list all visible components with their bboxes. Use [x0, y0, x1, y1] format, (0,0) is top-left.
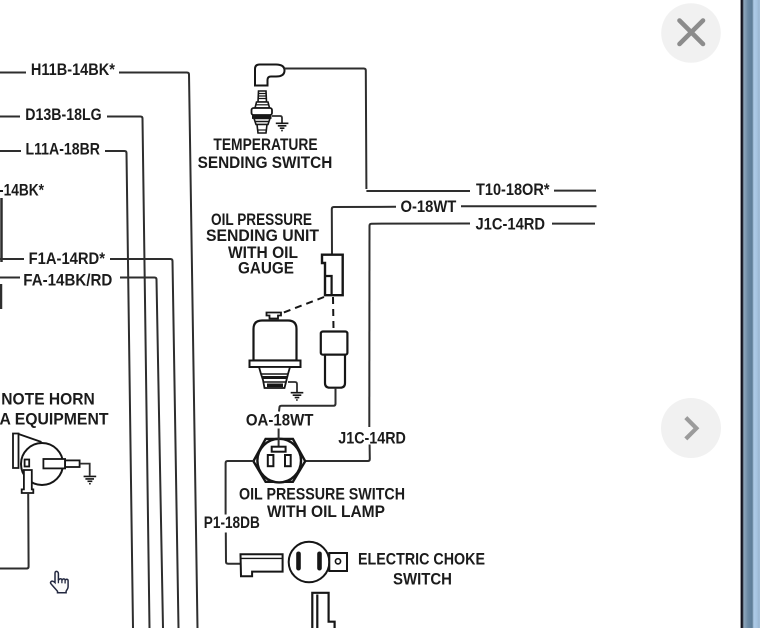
inline connector bottom block: [325, 355, 345, 388]
wire stub at left edge lower: [0, 284, 2, 309]
svg-text:FA-14BK/RD: FA-14BK/RD: [23, 272, 112, 290]
wire stub at left edge upper: [0, 198, 3, 262]
svg-text:GAUGE: GAUGE: [238, 259, 294, 278]
wire O-18WT left corner down to connector: [332, 207, 396, 255]
horn inner terminal square: [25, 460, 30, 467]
choke right slot: [317, 552, 322, 571]
wire temp sensor to ground: [272, 116, 282, 123]
wire J1C lower vertical to hexagon right: [305, 445, 370, 462]
ground canister: [291, 393, 304, 401]
close button: [661, 3, 721, 63]
oil pressure switch hexagon: [253, 439, 305, 482]
oil pressure switch circle: [257, 439, 301, 483]
wire L11A left stub: [0, 150, 21, 152]
electric choke switch body: [289, 542, 330, 583]
wire horn to ground: [80, 464, 90, 476]
wire J1C right stub: [552, 223, 595, 225]
wire F1A left stub: [0, 258, 24, 260]
switch top terminal: [272, 447, 286, 452]
svg-text:SWITCH: SWITCH: [393, 570, 452, 589]
horn body circle: [21, 443, 63, 485]
svg-text:SENDING SWITCH: SENDING SWITCH: [198, 153, 333, 172]
sending unit connector: [322, 255, 343, 296]
choke terminal hole: [335, 559, 340, 564]
choke bracket connector: [241, 554, 283, 576]
ground temp sensor: [276, 123, 289, 131]
horn lower connector: [22, 470, 34, 493]
wire H11B to vertical bus: [119, 73, 198, 628]
oil canister flange: [250, 361, 301, 368]
elbow boot connector (temp switch): [255, 65, 285, 86]
wire FA to vertical bus: [120, 278, 163, 628]
bottom connector channel: [312, 593, 334, 628]
svg-text:-14BK*: -14BK*: [0, 182, 45, 200]
wire D13B to vertical bus: [107, 117, 150, 628]
wire J1C vertical down: [368, 226, 370, 428]
svg-text:OA-18WT: OA-18WT: [246, 412, 314, 430]
horn output bar small: [65, 460, 80, 467]
dashed wire connector down: [332, 297, 335, 329]
wire T10 right stub: [554, 190, 596, 192]
svg-text:OIL PRESSURE SWITCH: OIL PRESSURE SWITCH: [239, 485, 405, 504]
oil canister taper: [259, 367, 290, 388]
svg-text:A EQUIPMENT: A EQUIPMENT: [0, 409, 109, 428]
ground horn: [84, 476, 97, 484]
temperature sensor body: [252, 91, 273, 133]
wire hexagon left: [226, 461, 254, 515]
wire inline connector down and left: [279, 388, 336, 412]
svg-text:P1-18DB: P1-18DB: [204, 514, 260, 532]
svg-text:L11A-18BR: L11A-18BR: [26, 140, 101, 158]
dashed wire connector to cap: [281, 297, 324, 314]
choke left slot: [296, 552, 301, 571]
wire J1C top corner: [370, 224, 471, 226]
wire H11B left stub: [0, 72, 26, 74]
close X icon: [680, 21, 704, 45]
wire F1A to vertical bus: [110, 259, 179, 628]
oil canister cap: [267, 313, 282, 319]
horn cone: [19, 434, 42, 442]
svg-text:TEMPERATURE: TEMPERATURE: [213, 135, 317, 154]
wire L11A to vertical bus: [105, 151, 133, 628]
wire P1 down to choke bracket: [226, 533, 241, 564]
next button: [661, 398, 721, 458]
oil canister dome: [254, 321, 297, 361]
sending unit connector inner tab: [325, 276, 332, 295]
wire FA left stub: [0, 277, 20, 279]
wire T10 horizontal: [366, 190, 470, 192]
wire O-18WT right: [461, 205, 597, 207]
wire temp switch to T10 corner: [285, 69, 367, 190]
svg-text:J1C-14RD: J1C-14RD: [476, 216, 546, 234]
svg-text:WITH OIL LAMP: WITH OIL LAMP: [267, 502, 385, 521]
switch right terminal: [285, 455, 291, 466]
wire canister to ground: [288, 382, 297, 392]
horn trumpet bar: [13, 434, 19, 469]
svg-text:F1A-14RD*: F1A-14RD*: [29, 250, 106, 268]
svg-text:H11B-14BK*: H11B-14BK*: [31, 61, 116, 79]
svg-text:O-18WT: O-18WT: [401, 198, 457, 216]
choke right terminal box: [329, 553, 347, 571]
svg-text:NOTE HORN: NOTE HORN: [1, 390, 95, 409]
inline connector top block: [321, 332, 348, 355]
svg-text:T10-18OR*: T10-18OR*: [476, 181, 550, 199]
wire horn connector down to left edge: [0, 493, 29, 569]
next chevron icon: [686, 418, 697, 439]
hand cursor: [51, 571, 69, 592]
svg-text:J1C-14RD: J1C-14RD: [338, 429, 406, 447]
svg-text:D13B-18LG: D13B-18LG: [25, 106, 101, 124]
wire OA to hexagon: [278, 429, 280, 447]
svg-text:ELECTRIC CHOKE: ELECTRIC CHOKE: [358, 550, 485, 569]
horn output bar: [43, 459, 65, 468]
wire D13B left stub: [0, 116, 20, 118]
switch left terminal: [268, 455, 274, 466]
